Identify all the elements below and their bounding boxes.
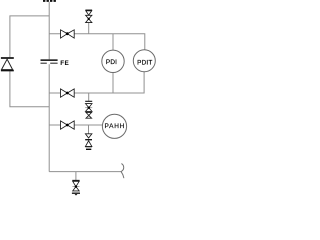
middle drain stub [88,93,90,101]
isolation valve V2 (middle tap) [61,89,75,97]
bypass pipe upper segment [10,16,49,57]
PDI bottom stub [112,73,114,93]
bypass pipe lower segment [10,71,49,107]
instrument PAHH [102,114,126,138]
svg-text:FE: FE [60,60,69,67]
svg-text:PDIT: PDIT [137,60,152,67]
svg-text:PDI: PDI [106,59,117,66]
PDI top stub [112,34,114,51]
lower drain stub [88,125,90,134]
middle drain valve assembly with cap [85,101,92,118]
isolation valve V3 (lower tap) [61,121,75,129]
bottom pipe run [49,171,121,173]
instrument PDIT [133,50,155,72]
middle tap line [49,72,144,93]
pipe break symbol [121,164,124,179]
lower tap line [49,124,102,126]
bottom drain stub [75,172,77,180]
upper tap line [49,34,145,50]
vent valve assembly with cap (top) [85,10,92,23]
off-page connector dashed line [43,0,56,2]
isolation valve V1 (upper tap) [61,30,75,38]
svg-text:PAHH: PAHH [105,123,126,130]
rupture disc / relief element on bypass [1,58,14,71]
bottom drain valve assembly with cap [72,180,80,195]
main pipe (vertical) [48,2,50,172]
instrument PDI [102,50,124,72]
orifice plate FE [41,60,58,63]
vent stub wire [88,23,90,34]
lower drain valve assembly with cap [85,134,92,150]
